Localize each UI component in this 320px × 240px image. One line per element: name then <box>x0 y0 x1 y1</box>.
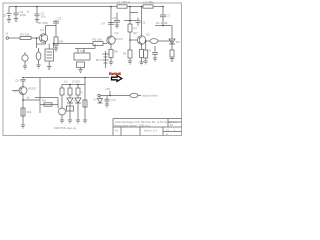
svg-text:C9: C9 <box>147 49 151 53</box>
svg-text:10u: 10u <box>41 15 46 19</box>
svg-text:MAX756 step-up: MAX756 step-up <box>54 126 77 130</box>
svg-text:output drive: output drive <box>142 94 158 98</box>
svg-text:Solar Recharge Unit, Mk2 Rev B: Solar Recharge Unit, Mk2 Rev B4, (4.5V-6… <box>115 120 177 124</box>
svg-text:L2 100u: L2 100u <box>143 0 154 4</box>
svg-text:BC557: BC557 <box>29 87 37 91</box>
svg-text:C8: C8 <box>15 79 19 83</box>
svg-text:LT1302: LT1302 <box>72 81 81 84</box>
svg-text:U2: U2 <box>80 49 84 53</box>
svg-text:Q2: Q2 <box>115 31 119 35</box>
svg-text:C6: C6 <box>142 21 146 25</box>
svg-text:C7: C7 <box>167 14 171 18</box>
svg-text:R4: R4 <box>60 40 64 44</box>
svg-text:J1: J1 <box>5 32 9 36</box>
svg-text:C3: C3 <box>58 17 62 21</box>
svg-text:R7: R7 <box>134 27 138 31</box>
svg-text:L1 100uH: L1 100uH <box>117 0 130 4</box>
svg-text:10k: 10k <box>27 110 32 114</box>
svg-text:R3 10k: R3 10k <box>20 33 30 37</box>
svg-text:4k7: 4k7 <box>133 31 138 35</box>
svg-text:R6: R6 <box>114 50 118 54</box>
svg-text:C5: C5 <box>113 16 117 20</box>
svg-text:Q5: Q5 <box>14 89 18 93</box>
svg-text:Regenerative charger - PCB rev: Regenerative charger - PCB rev 2 <box>114 124 151 127</box>
svg-text:R5 2k2: R5 2k2 <box>93 38 103 42</box>
svg-text:+5V: +5V <box>105 87 110 91</box>
svg-text:U1: U1 <box>64 80 68 84</box>
svg-text:D1 4148: D1 4148 <box>156 21 168 25</box>
svg-text:R9: R9 <box>42 99 46 103</box>
svg-text:BC337: BC337 <box>116 38 124 41</box>
svg-text:ReVolt: ReVolt <box>109 72 121 76</box>
svg-text:Q3: Q3 <box>146 33 150 37</box>
svg-text:D2: D2 <box>176 40 180 44</box>
svg-text:C4: C4 <box>101 22 105 26</box>
svg-text:R1 560: R1 560 <box>38 21 48 25</box>
svg-text:Q1: Q1 <box>40 28 44 32</box>
svg-text:Sheet 1 of 1: Sheet 1 of 1 <box>144 130 158 133</box>
svg-text:1k: 1k <box>27 96 31 100</box>
svg-text:BT2: BT2 <box>96 58 102 62</box>
svg-text:100n: 100n <box>20 13 27 17</box>
svg-text:C11: C11 <box>111 98 117 102</box>
